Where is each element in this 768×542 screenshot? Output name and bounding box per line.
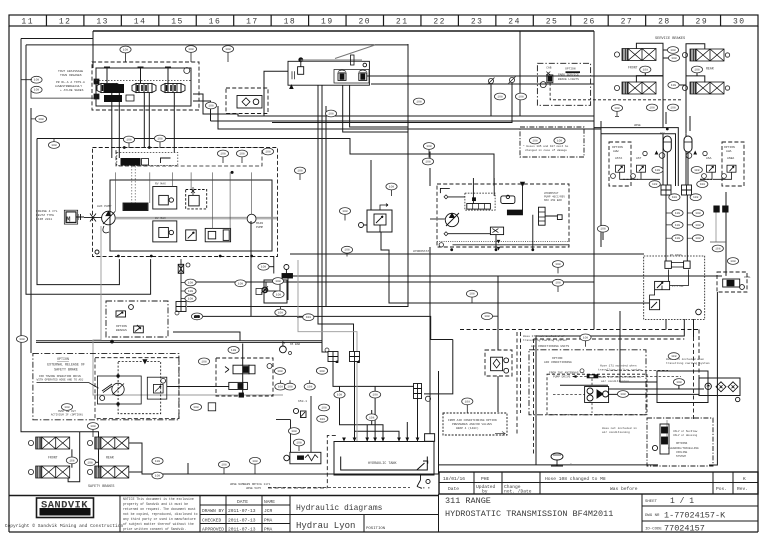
svg-text:POSITION: POSITION — [366, 527, 386, 531]
svg-text:19: 19 — [321, 18, 334, 27]
svg-text:HYDROSTATIC TRANSMISSION BF4M2: HYDROSTATIC TRANSMISSION BF4M2011 — [445, 509, 613, 519]
svg-text:air conditioning: air conditioning — [601, 379, 629, 383]
svg-text:SERVICE BRAKES: SERVICE BRAKES — [655, 37, 685, 41]
svg-text:VALV or Housing: VALV or Housing — [673, 433, 698, 437]
svg-text:AIR CONDITIONING: AIR CONDITIONING — [544, 361, 572, 364]
svg-text:18/01/16: 18/01/16 — [443, 476, 465, 482]
svg-text:SANDVIK: SANDVIK — [41, 500, 88, 512]
svg-text:24: 24 — [508, 18, 521, 27]
svg-text:23: 23 — [471, 18, 484, 27]
svg-text:by: by — [482, 489, 488, 495]
svg-text:AIR CONDITIONING UNITS: AIR CONDITIONING UNITS — [531, 345, 569, 348]
svg-text:PUMP DRIVE: PUMP DRIVE — [553, 376, 571, 379]
svg-text:SAFETY BRAKES: SAFETY BRAKES — [88, 485, 114, 489]
svg-text:11: 11 — [21, 18, 34, 27]
svg-text:Was before: Was before — [610, 486, 638, 492]
svg-text:FRONT: FRONT — [628, 66, 638, 70]
svg-text:650-1: 650-1 — [298, 400, 307, 403]
svg-text:BRAKES: BRAKES — [116, 329, 127, 332]
svg-text:property of Sandvik and it mus: property of Sandvik and it must be — [123, 502, 188, 506]
svg-text:ASTA: ASTA — [615, 157, 622, 160]
svg-text:FROM AIR CONDITIONING OPTION: FROM AIR CONDITIONING OPTION — [448, 419, 497, 422]
svg-text:ACTIVIUM IF (OPTION): ACTIVIUM IF (OPTION) — [51, 413, 84, 417]
svg-text:CAB: CAB — [546, 66, 551, 69]
svg-text:Rev.: Rev. — [737, 486, 748, 492]
svg-text:26: 26 — [583, 18, 596, 27]
svg-text:APPROVED: APPROVED — [202, 527, 224, 533]
svg-text:18: 18 — [284, 18, 297, 27]
svg-text:ASA: ASA — [706, 157, 712, 160]
svg-text:NOTICE This document is the ex: NOTICE This document is the exclusive — [123, 497, 194, 501]
svg-text:16: 16 — [209, 18, 222, 27]
svg-text:BY PASS: BY PASS — [670, 254, 682, 257]
svg-text:22: 22 — [433, 18, 446, 27]
svg-text:PHE: PHE — [481, 476, 490, 482]
svg-text:28: 28 — [658, 18, 671, 27]
svg-text:2011-07-13: 2011-07-13 — [228, 518, 256, 524]
svg-text:14: 14 — [134, 18, 147, 27]
svg-text:PMA: PMA — [264, 518, 273, 524]
svg-text:WRAP 4 (140C): WRAP 4 (140C) — [456, 426, 479, 430]
svg-text:MAIN: MAIN — [256, 222, 263, 225]
svg-text:ACC: ACC — [660, 132, 665, 135]
svg-text:2011-07-13: 2011-07-13 — [228, 527, 256, 533]
svg-text:NAME: NAME — [264, 499, 275, 505]
svg-text:OPTION: OPTION — [552, 357, 563, 360]
svg-text:17: 17 — [246, 18, 259, 27]
svg-text:27: 27 — [621, 18, 634, 27]
svg-text:Pos.: Pos. — [716, 486, 727, 492]
svg-text:M: M — [66, 217, 71, 225]
svg-text:COOLING: COOLING — [676, 451, 688, 454]
svg-text:JCR: JCR — [264, 508, 273, 514]
svg-text:311 RANGE: 311 RANGE — [445, 496, 491, 506]
svg-text:AHA: AHA — [726, 150, 732, 153]
svg-text:CHECKED: CHECKED — [202, 518, 222, 524]
svg-text:21: 21 — [396, 18, 409, 27]
svg-text:Date: Date — [448, 486, 459, 492]
svg-text:SHEET: SHEET — [645, 500, 658, 504]
svg-text:MAX 250 BAR: MAX 250 BAR — [544, 199, 562, 202]
svg-text:RV MAX: RV MAX — [155, 217, 166, 220]
svg-text:+ AYLOE SEDES: + AYLOE SEDES — [60, 89, 84, 92]
svg-text:OPTION: OPTION — [612, 146, 623, 149]
svg-text:K: K — [743, 476, 746, 482]
svg-text:OPTIONS: OPTIONS — [676, 442, 688, 445]
svg-text:COOL: COOL — [744, 276, 751, 279]
svg-text:DEUTZ TYPE: DEUTZ TYPE — [36, 214, 54, 217]
svg-text:PUMP: PUMP — [256, 226, 263, 229]
svg-text:returned on request. The docum: returned on request. The document must — [123, 507, 196, 511]
svg-text:SAFETY BRAKE: SAFETY BRAKE — [54, 368, 78, 372]
svg-text:travelling cooling system: travelling cooling system — [666, 361, 710, 365]
svg-text:PUMP 46CC/REV: PUMP 46CC/REV — [544, 195, 565, 199]
svg-text:HYDROSTAT: HYDROSTAT — [413, 250, 429, 253]
svg-text:PARK SERVICE: PARK SERVICE — [558, 74, 579, 77]
svg-text:AST: AST — [636, 157, 642, 160]
svg-text:77024157: 77024157 — [664, 524, 705, 534]
svg-text:TOUT GRAISSAGE: TOUT GRAISSAGE — [58, 70, 83, 73]
svg-text:65 BAR: 65 BAR — [290, 343, 300, 346]
svg-text:changed in case of damage: changed in case of damage — [525, 148, 567, 152]
svg-text:2011-07-13: 2011-07-13 — [228, 508, 256, 514]
svg-text:RV MAX: RV MAX — [155, 183, 166, 186]
svg-text:Hydraulic diagrams: Hydraulic diagrams — [296, 504, 383, 513]
svg-text:travelling cooling system: travelling cooling system — [523, 338, 567, 342]
svg-text:BRAKE LIGHTS: BRAKE LIGHTS — [558, 78, 579, 81]
svg-text:Hose 108 changed to M8: Hose 108 changed to M8 — [545, 476, 606, 482]
svg-text:ID-CODE: ID-CODE — [645, 528, 662, 532]
svg-text:WITH OPERATED HOSE AND TO ADJ: WITH OPERATED HOSE AND TO ADJ — [37, 379, 84, 382]
svg-text:REAR: REAR — [106, 456, 114, 460]
svg-text:Copyright © Sandvik Mining and: Copyright © Sandvik Mining and Construct… — [5, 522, 124, 529]
svg-text:REAR: REAR — [706, 67, 714, 71]
svg-text:Hose 170 not included if: Hose 170 not included if — [523, 334, 565, 338]
svg-text:OPTION: OPTION — [57, 357, 69, 361]
svg-text:17.5 bar: 17.5 bar — [672, 285, 685, 288]
svg-text:not. /Date: not. /Date — [504, 489, 532, 495]
svg-text:PMA: PMA — [264, 527, 273, 533]
svg-text:HOSE NUMBERS NOTICE 1171: HOSE NUMBERS NOTICE 1171 — [230, 483, 271, 486]
svg-text:AJWESTRBREECHLY: AJWESTRBREECHLY — [55, 85, 82, 88]
svg-text:any third party or used in man: any third party or used in manufacture — [123, 517, 196, 521]
svg-text:ENGINE 4 CYL: ENGINE 4 CYL — [36, 210, 58, 213]
svg-text:BF4M 2011: BF4M 2011 — [36, 218, 52, 221]
svg-text:FRONT: FRONT — [48, 456, 58, 460]
svg-text:CLEANING/TRAVELLING: CLEANING/TRAVELLING — [668, 446, 699, 450]
svg-text:1-77024157-K: 1-77024157-K — [664, 511, 726, 521]
svg-text:29: 29 — [696, 18, 709, 27]
svg-text:not be copied, reproduced, dis: not be copied, reproduced, disclosed to — [123, 512, 198, 516]
svg-text:prior written consent of Sandv: prior written consent of Sandvik. — [123, 527, 186, 531]
svg-text:1 / 1: 1 / 1 — [670, 497, 694, 506]
svg-text:PRESSURES AND/OR VALVES: PRESSURES AND/OR VALVES — [452, 422, 492, 426]
svg-text:DRAWN BY: DRAWN BY — [202, 508, 224, 514]
svg-text:13: 13 — [96, 18, 109, 27]
svg-text:* Hoses 105 and 107 must be: * Hoses 105 and 107 must be — [523, 144, 569, 148]
svg-text:Hose 172 not included in: Hose 172 not included in — [599, 375, 641, 379]
svg-text:OPTION: OPTION — [565, 67, 576, 70]
svg-text:PR RL-A A TOTS-A: PR RL-A A TOTS-A — [56, 81, 85, 84]
svg-text:OPTION: OPTION — [116, 325, 127, 328]
svg-text:Hydrau Lyon: Hydrau Lyon — [296, 521, 355, 531]
svg-text:EXTERNAL RELEASE OF: EXTERNAL RELEASE OF — [47, 363, 85, 367]
svg-text:15: 15 — [171, 18, 184, 27]
svg-text:25: 25 — [546, 18, 559, 27]
svg-text:Hose 171 mounted when: Hose 171 mounted when — [600, 364, 637, 368]
svg-text:air conditioning: air conditioning — [602, 430, 630, 434]
svg-text:DWG NR: DWG NR — [645, 514, 660, 518]
svg-text:VALV or SucFlow: VALV or SucFlow — [673, 429, 698, 433]
svg-text:AUX PUMP: AUX PUMP — [97, 205, 112, 208]
svg-text:~: ~ — [570, 462, 572, 465]
svg-text:HOSE: HOSE — [634, 124, 641, 127]
svg-text:SYSTEM: SYSTEM — [676, 455, 686, 458]
svg-text:AHW: AHW — [613, 150, 619, 153]
svg-text:12: 12 — [59, 18, 72, 27]
svg-text:OPTION: OPTION — [724, 146, 735, 149]
svg-text:HYDRAULIC TANK: HYDRAULIC TANK — [368, 462, 397, 466]
svg-text:HOSE 5075: HOSE 5075 — [246, 487, 261, 490]
svg-text:20: 20 — [358, 18, 371, 27]
svg-text:of subject matter thereof with: of subject matter thereof without the — [123, 522, 194, 526]
svg-text:ASBA: ASBA — [727, 157, 734, 160]
svg-text:DATE: DATE — [237, 499, 248, 505]
svg-text:TOUS ORGANES: TOUS ORGANES — [60, 74, 82, 77]
svg-text:Hose not included in: Hose not included in — [602, 426, 637, 430]
svg-text:30: 30 — [733, 18, 746, 27]
